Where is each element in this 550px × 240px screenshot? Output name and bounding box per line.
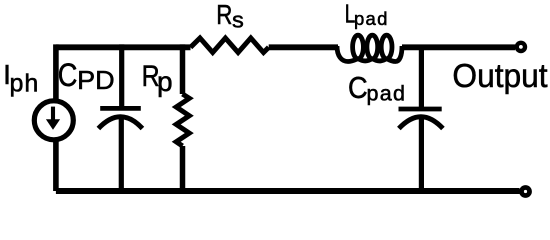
- label Rp: [142, 59, 173, 97]
- svg-text:Output: Output: [452, 57, 547, 94]
- capacitor CPD: [98, 44, 142, 191]
- svg-text:R: R: [216, 0, 232, 30]
- label CPD: [58, 58, 115, 95]
- capacitor Cpad: [399, 47, 443, 191]
- label Iph: [3, 58, 39, 97]
- wire left vertical top: [53, 44, 59, 99]
- label Rs: [216, 0, 244, 32]
- svg-text:C: C: [58, 58, 78, 94]
- current source Iph: [34, 101, 73, 140]
- wire bottom rail: [56, 188, 520, 194]
- resistor Rs: [191, 38, 269, 53]
- svg-text:PD: PD: [77, 66, 114, 95]
- wire top right: [402, 44, 515, 50]
- wire left vertical bottom: [53, 141, 59, 192]
- label Lpad: [345, 0, 389, 29]
- svg-text:p: p: [157, 66, 173, 97]
- label Cpad: [348, 71, 406, 105]
- svg-text:pad: pad: [354, 8, 389, 29]
- svg-text:ph: ph: [10, 70, 40, 98]
- svg-text:s: s: [232, 7, 244, 32]
- resistor Rp: [176, 44, 189, 191]
- wire top mid: [269, 44, 338, 50]
- inductor Lpad: [337, 35, 402, 61]
- terminal top: [517, 43, 525, 51]
- terminal bottom: [522, 188, 530, 196]
- wire top rail left: [56, 44, 191, 50]
- svg-text:pad: pad: [367, 81, 407, 105]
- svg-text:C: C: [348, 71, 368, 105]
